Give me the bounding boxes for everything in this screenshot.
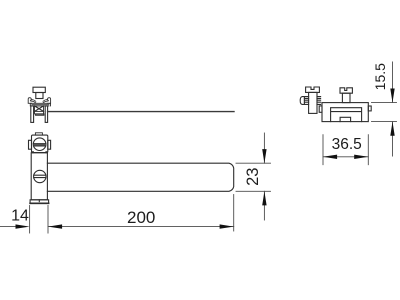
svg-text:200: 200 bbox=[127, 208, 155, 227]
side view: right leg bbox=[45, 106, 47, 123]
dim 15.5: dimension line segments bbox=[392, 62, 394, 103]
right view: main box bbox=[322, 103, 368, 122]
svg-text:15.5: 15.5 bbox=[372, 63, 388, 90]
side view: bottom band bbox=[36, 114, 44, 115]
front view: body bbox=[31, 153, 47, 200]
front view: right ear bbox=[48, 140, 51, 149]
dim 23: dimension line segments bbox=[263, 133, 265, 163]
side view: right spring wing bbox=[47, 98, 50, 104]
dim 15.5: bottom arrow bbox=[390, 122, 394, 136]
dim 23: bottom arrow bbox=[262, 191, 266, 205]
right view: left tab bbox=[319, 106, 322, 112]
side view: left spring wing bbox=[28, 98, 31, 104]
bar 200 long bbox=[47, 163, 233, 191]
dim 15.5: extension lines bbox=[372, 102, 397, 104]
front view: head box bbox=[32, 135, 48, 153]
svg-text:36.5: 36.5 bbox=[332, 136, 362, 153]
right view: right screw head bbox=[340, 88, 352, 93]
right view: right screw shaft bbox=[342, 93, 350, 102]
dim 36.5: left arrow bbox=[323, 155, 337, 159]
dim 23: top arrow bbox=[262, 149, 266, 163]
side view: saddle plate bbox=[30, 103, 50, 106]
side view: clamp body with X cross bbox=[35, 106, 44, 112]
side view: left leg bbox=[31, 106, 34, 123]
dim 36.5: dimension line bbox=[323, 156, 368, 158]
dim 23: extension lines bbox=[236, 162, 271, 164]
dim 200: right arrow bbox=[220, 224, 234, 228]
dim 15.5: top arrow bbox=[390, 89, 394, 103]
dim 36.5: extension lines bbox=[322, 135, 324, 165]
dim 200: right extension line bbox=[233, 195, 235, 232]
dim 14/200: dimension line left approach bbox=[0, 226, 16, 228]
right view: left screw shaft bbox=[309, 92, 317, 113]
dim 36.5: right arrow bbox=[354, 155, 368, 159]
right view: jaw rounded nose bbox=[300, 97, 304, 105]
side view: screw head bbox=[33, 87, 45, 92]
front view: screw head circle bbox=[33, 138, 46, 151]
front view: lower screw circle bbox=[34, 170, 46, 182]
dim 200: dimension line bbox=[48, 226, 234, 228]
side view: screw shaft bbox=[36, 93, 43, 99]
right view: left screw head bbox=[306, 87, 320, 92]
front view: lower screw slot bbox=[34, 175, 46, 177]
dim 14: left arrow bbox=[16, 224, 30, 228]
front view: top tab bbox=[35, 133, 42, 135]
front view: screw slot bbox=[33, 144, 45, 146]
wire rod bbox=[48, 111, 234, 113]
svg-text:14: 14 bbox=[11, 208, 29, 225]
dim 14: extension lines bbox=[29, 206, 31, 234]
front view: right foot mark bbox=[45, 151, 47, 153]
right view: right tab bbox=[368, 106, 371, 111]
front view: left foot mark bbox=[32, 151, 34, 153]
right view: jaw serrations left bbox=[304, 97, 308, 105]
right view: inner channel bbox=[331, 108, 362, 122]
dim 14: right arrow bbox=[48, 224, 62, 228]
svg-text:23: 23 bbox=[244, 168, 262, 186]
front view: base plate bbox=[30, 200, 48, 204]
front view: left ear bbox=[29, 140, 32, 149]
right view: inner bottom block bbox=[340, 117, 351, 121]
right view: jaw serrations right bbox=[317, 97, 321, 105]
